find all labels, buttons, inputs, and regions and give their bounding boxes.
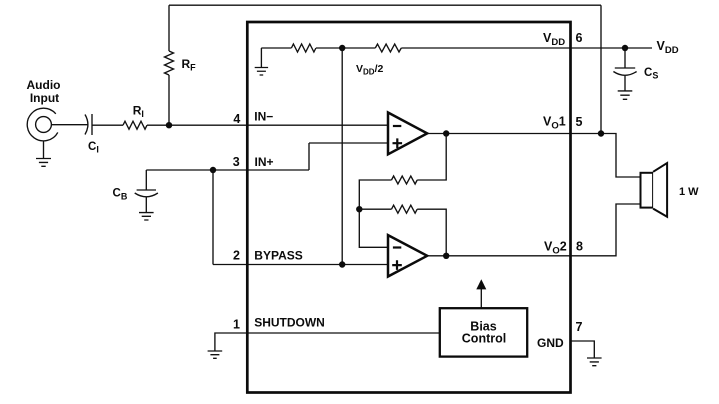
ground GND pin: [587, 358, 602, 366]
node junction VO1 feedback: [598, 130, 604, 136]
wire bypass horizontal: [213, 264, 388, 266]
speaker driver rectangle: [641, 173, 654, 208]
connector audio input jack inner circle: [36, 117, 52, 133]
wire feedback res1 left: [359, 180, 391, 209]
wire CS bottom lead: [624, 76, 626, 91]
wire IN+ jog vertical: [308, 143, 310, 170]
svg-text:Input: Input: [30, 91, 59, 105]
svg-text:BYPASS: BYPASS: [254, 249, 302, 263]
wire amp2 minus lead: [359, 209, 388, 247]
svg-text:GND: GND: [537, 336, 564, 350]
op-amp A2 plus sign: [392, 260, 402, 270]
svg-text:1: 1: [233, 318, 240, 332]
op-amp A1 minus sign: [393, 125, 401, 127]
node junction IN+ bypass: [210, 167, 216, 173]
wire shutdown external: [215, 333, 247, 351]
wire GND pin external: [571, 341, 595, 358]
wire amp1 output to speaker: [427, 134, 641, 178]
svg-text:2: 2: [233, 248, 240, 262]
svg-text:3: 3: [233, 155, 240, 169]
ground audio input: [43, 141, 45, 159]
resistor feedback R upper: [392, 176, 418, 184]
wire CB bottom lead: [145, 198, 147, 213]
op-amp A2 minus sign: [393, 246, 401, 248]
op-amp A1 plus sign: [393, 138, 403, 148]
ground CS: [618, 91, 633, 99]
svg-text:Control: Control: [462, 332, 506, 346]
op-amp A1: [388, 113, 427, 155]
node junction amp1 output: [443, 130, 449, 136]
node junction res2 left: [356, 206, 362, 212]
wire VDD to external: [401, 47, 652, 49]
svg-text:4: 4: [233, 112, 240, 126]
wire CI to RI: [92, 124, 123, 126]
wire CB horizontal: [146, 169, 309, 171]
resistor divider upper R1: [291, 44, 316, 52]
node junction bypass VDD/2: [339, 261, 345, 267]
wire shutdown internal: [247, 332, 440, 334]
wire feedback res1 right: [417, 134, 446, 181]
wire feedback right vertical: [600, 5, 602, 133]
svg-text:7: 7: [576, 320, 583, 334]
node junction VDD/2: [339, 45, 345, 51]
svg-text:IN+: IN+: [255, 155, 274, 169]
wire RF bottom lead: [168, 75, 170, 125]
svg-text:SHUTDOWN: SHUTDOWN: [254, 316, 325, 330]
wire feedback top horizontal: [169, 4, 601, 6]
resistor feedback R lower: [392, 205, 418, 213]
IC box outline: [247, 22, 570, 393]
svg-text:8: 8: [576, 240, 583, 254]
ground CB: [139, 213, 154, 220]
wire CS top lead: [624, 48, 626, 68]
ground shutdown: [208, 351, 223, 358]
speaker cone: [653, 163, 667, 217]
ground internal divider: [260, 48, 262, 68]
resistor divider R2: [375, 44, 401, 52]
wire amp2 output VO2: [427, 204, 641, 256]
wire divider middle: [316, 47, 375, 49]
svg-text:IN−: IN−: [254, 109, 273, 123]
node junction RI RF: [166, 122, 172, 128]
connector audio input jack outer ring: [27, 108, 58, 141]
svg-text:Audio: Audio: [27, 78, 61, 92]
wire IN+ to amp1 plus: [309, 142, 388, 144]
node junction CS tap: [622, 45, 628, 51]
wire bypass vertical: [212, 170, 214, 265]
svg-text:5: 5: [576, 115, 583, 129]
wire res2 right lead: [417, 209, 446, 256]
wire IN- line: [147, 124, 388, 126]
block bias control: [440, 308, 527, 356]
capacitor CI: [85, 114, 92, 135]
wire input to CI: [51, 124, 87, 126]
wire RF top lead: [168, 5, 170, 51]
wire res2 left lead: [359, 208, 391, 210]
capacitor CB: [135, 190, 158, 197]
svg-text:6: 6: [576, 31, 583, 45]
resistor RI: [123, 121, 147, 129]
wire CB top lead: [145, 170, 147, 190]
node junction amp2 output: [443, 253, 449, 259]
wire VDD/2 vertical: [341, 48, 343, 265]
wire VDD internal left lead: [261, 47, 291, 49]
resistor RF: [165, 51, 174, 75]
op-amp A2: [388, 235, 427, 276]
bias control arrow: [480, 289, 482, 309]
capacitor CS: [613, 68, 636, 75]
svg-text:1 W: 1 W: [679, 186, 699, 198]
